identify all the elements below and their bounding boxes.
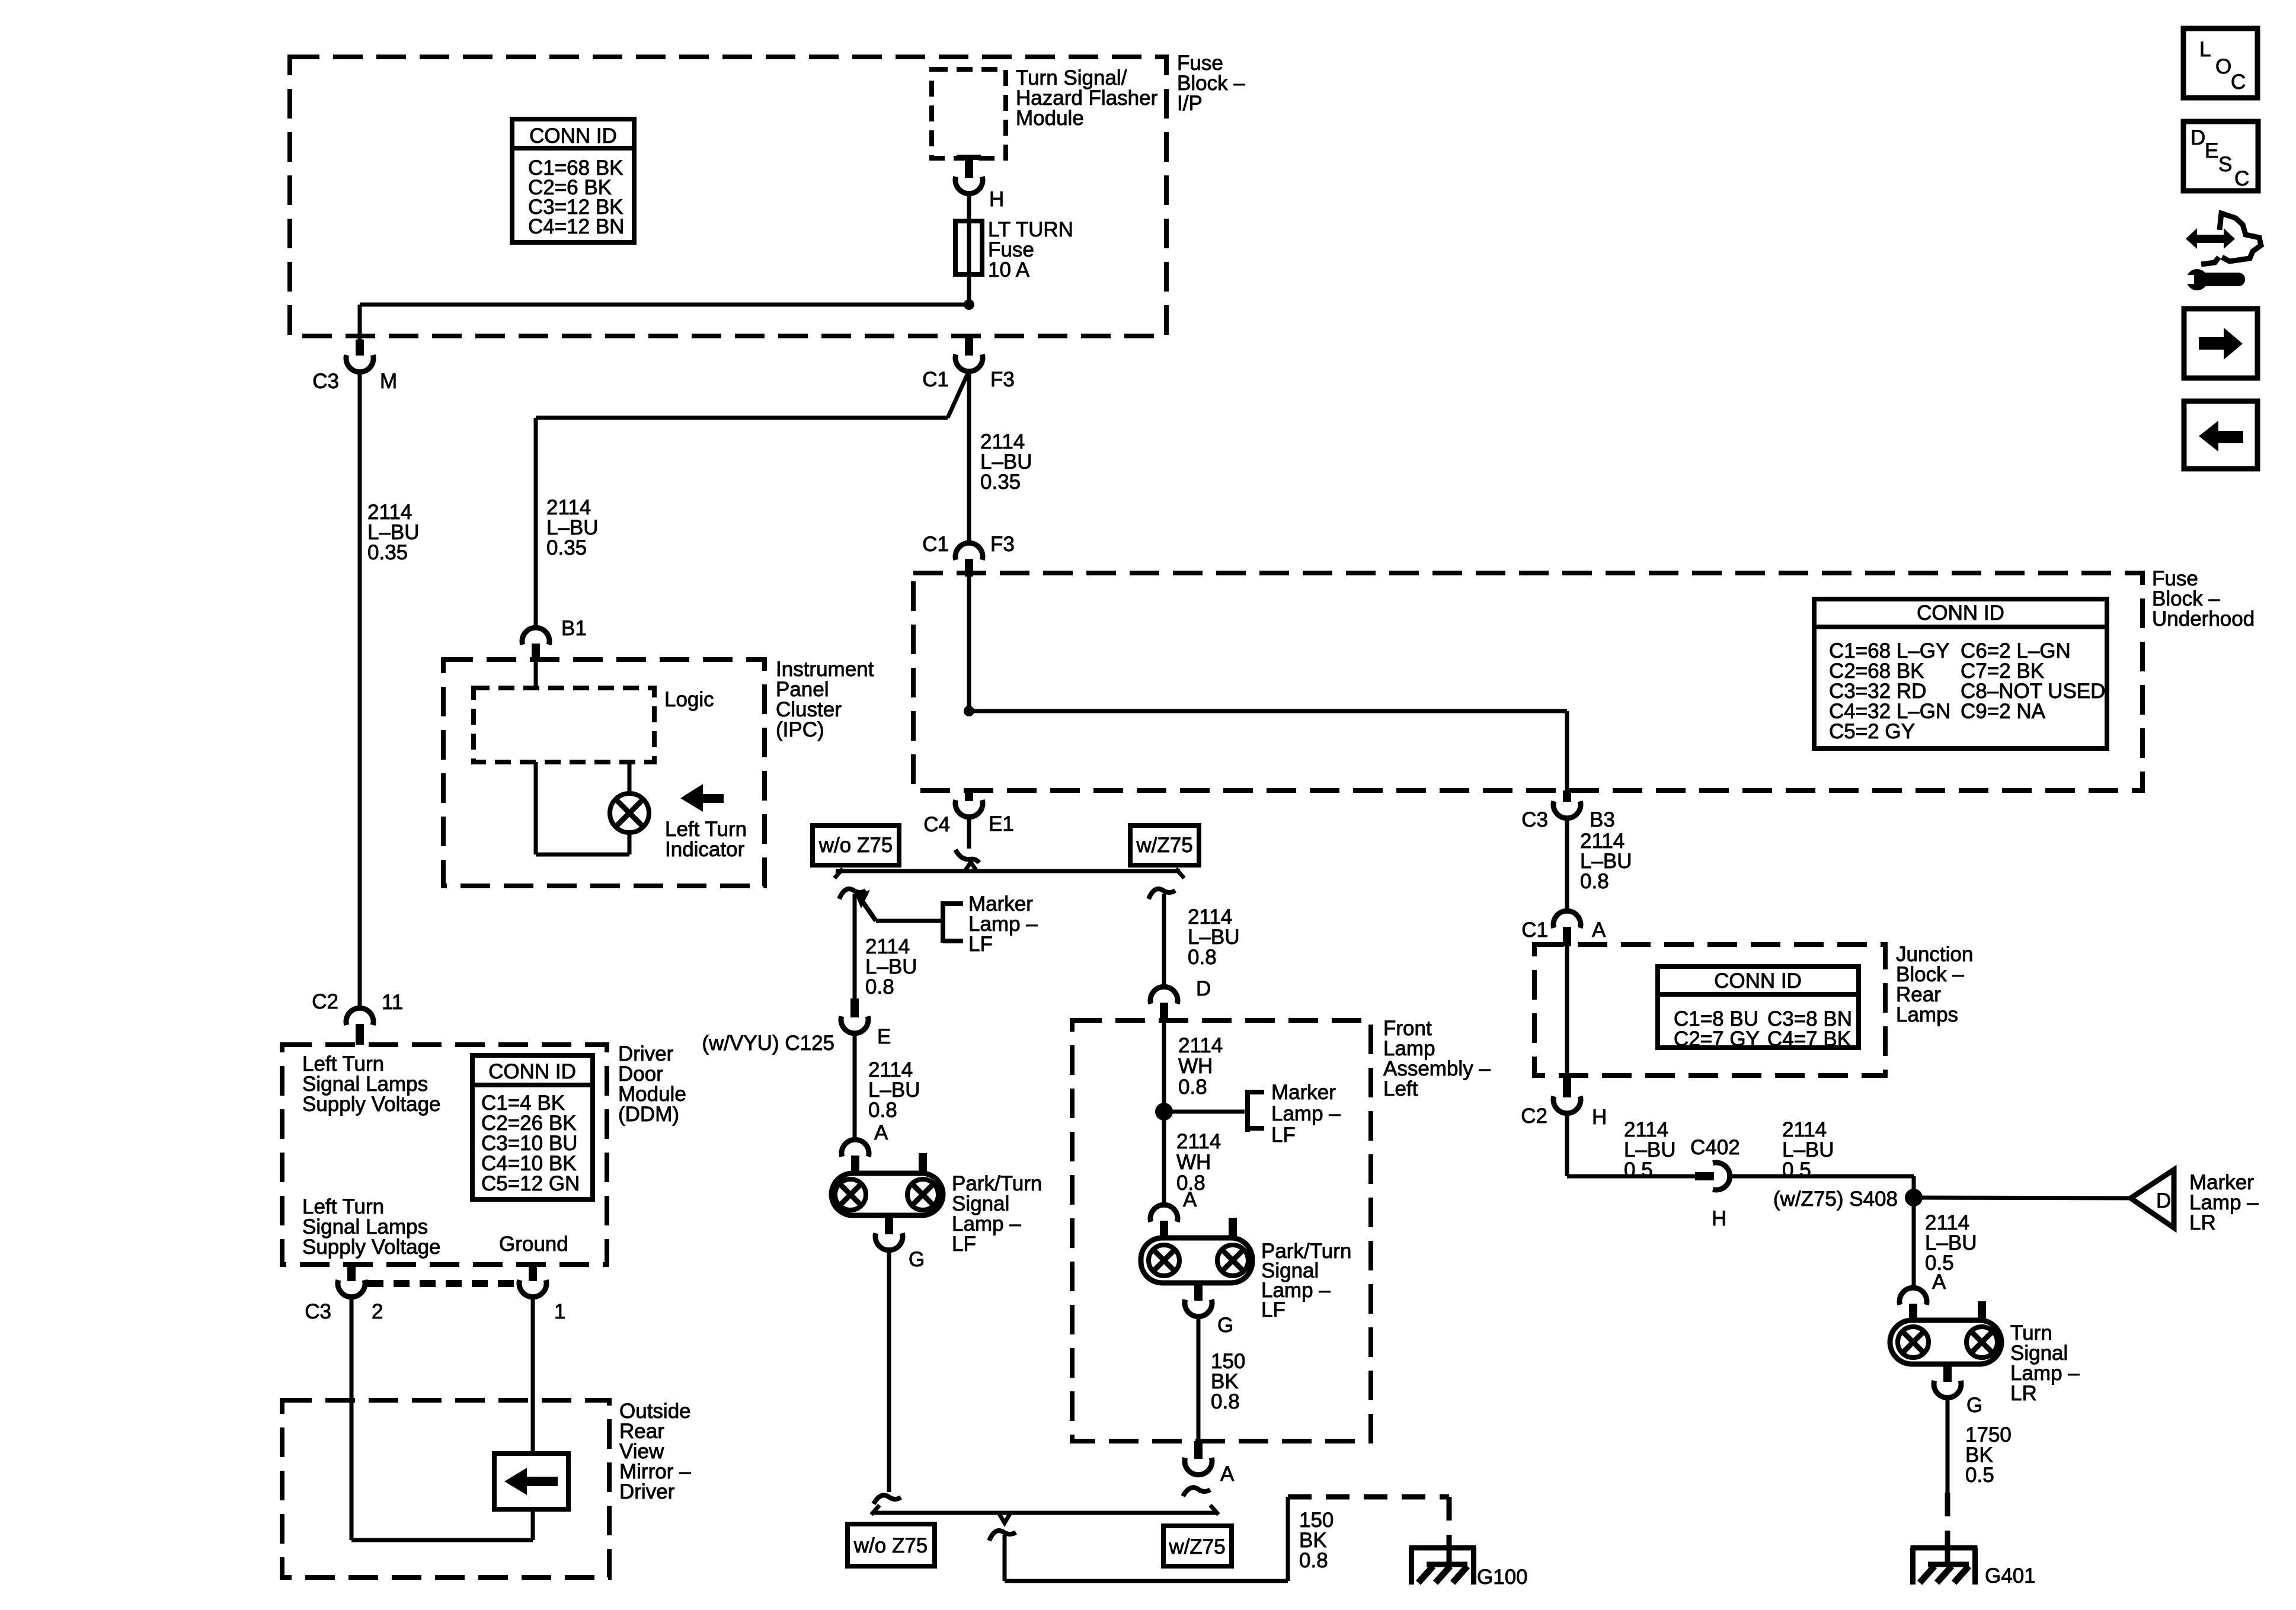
connector A (LF lamp 2) [1150, 1205, 1178, 1222]
connector A (LR lamp) [1900, 1288, 1927, 1305]
svg-text:CONN ID: CONN ID [1917, 601, 2004, 625]
svg-text:(w/Z75) S408: (w/Z75) S408 [1773, 1188, 1898, 1211]
svg-text:2114: 2114 [1176, 1130, 1221, 1153]
CONN ID table (I/P) [512, 119, 634, 242]
svg-text:Supply Voltage: Supply Voltage [302, 1093, 441, 1116]
connector G (LF lamp 1) [885, 1215, 893, 1234]
svg-text:E: E [2205, 139, 2218, 162]
svg-text:Driver: Driver [619, 1480, 675, 1503]
svg-text:F3: F3 [990, 368, 1015, 391]
Driver Door Module dashed box [282, 1045, 607, 1265]
svg-text:0.8: 0.8 [865, 975, 894, 998]
svg-text:G: G [1966, 1394, 1982, 1417]
svg-text:0.35: 0.35 [546, 536, 587, 559]
svg-text:WH: WH [1176, 1151, 1211, 1174]
svg-text:G: G [909, 1248, 925, 1271]
svg-text:Supply Voltage: Supply Voltage [302, 1235, 441, 1259]
Fuse Block Underhood dashed box [913, 573, 2142, 790]
svg-text:w/o Z75: w/o Z75 [818, 834, 893, 857]
Fuse Block I/P dashed box [290, 57, 1166, 336]
connector C3 pins 2 and 1 [347, 1265, 356, 1281]
svg-text:LF: LF [968, 933, 993, 956]
marker lamp LF tap [855, 890, 870, 908]
wire to marker lamp LR [1914, 1198, 2131, 1198]
wire logic to lamp [534, 762, 538, 854]
svg-text:Ground: Ground [499, 1233, 568, 1256]
wire to G100 [989, 1531, 1016, 1541]
turn signal lamp LR [1890, 1320, 2001, 1364]
wire to C3 M [360, 303, 969, 307]
option split symbol [955, 850, 979, 863]
ground G401 [1911, 1545, 1978, 1551]
module pin [957, 155, 981, 160]
svg-text:(w/VYU) C125: (w/VYU) C125 [702, 1032, 834, 1055]
svg-text:w/Z75: w/Z75 [1168, 1535, 1225, 1558]
marker lamp LF bracket [941, 901, 945, 943]
connector G (LF lamp 2) [1194, 1283, 1203, 1301]
CONN ID table (junction block) [1658, 966, 1859, 1048]
w/Z75 box (bottom) [1163, 1526, 1232, 1566]
w/Z75 box [1130, 825, 1199, 865]
node (junction) [964, 299, 974, 310]
fuse LT TURN 10A [955, 221, 982, 274]
svg-text:0.8: 0.8 [1580, 870, 1609, 893]
svg-text:H: H [1712, 1207, 1726, 1230]
Junction Block Rear Lamps dashed box [1534, 945, 1885, 1076]
svg-text:WH: WH [1178, 1055, 1213, 1078]
svg-text:C2: C2 [1521, 1105, 1547, 1128]
svg-text:D: D [1196, 977, 1211, 1000]
svg-text:Logic: Logic [664, 688, 714, 711]
svg-text:10 A: 10 A [988, 258, 1030, 281]
Instrument Panel Cluster dashed box [443, 660, 765, 886]
svg-text:CONN ID: CONN ID [488, 1060, 576, 1083]
svg-text:A: A [1183, 1188, 1197, 1211]
svg-text:Left: Left [1383, 1077, 1418, 1100]
wire left main [358, 370, 362, 1009]
connector B1 [522, 628, 549, 645]
icon DESC [2183, 121, 2258, 191]
indicator arrow [680, 784, 724, 812]
svg-text:G401: G401 [1985, 1564, 2036, 1587]
wires inside underhood block [967, 577, 971, 711]
svg-text:LR: LR [2189, 1211, 2216, 1234]
svg-text:0.8: 0.8 [1178, 1076, 1207, 1099]
svg-text:Marker: Marker [1271, 1081, 1336, 1104]
svg-text:C402: C402 [1690, 1136, 1740, 1159]
svg-text:F3: F3 [990, 533, 1015, 556]
svg-text:w/Z75: w/Z75 [1136, 834, 1192, 857]
w/o Z75 box (bottom) [848, 1524, 935, 1566]
svg-text:(IPC): (IPC) [776, 718, 824, 741]
park/turn signal lamp LF (2) [1141, 1238, 1252, 1283]
svg-text:D: D [2156, 1189, 2171, 1212]
svg-text:0.8: 0.8 [1299, 1549, 1328, 1572]
svg-text:Indicator: Indicator [665, 838, 745, 861]
icon right arrow [2184, 309, 2257, 378]
svg-text:E1: E1 [989, 812, 1014, 836]
branch wire to IPC B1 [948, 373, 968, 418]
connector A (front lamp box exit) [1194, 1441, 1203, 1459]
CONN ID table (DDM) [472, 1055, 593, 1199]
svg-text:11: 11 [382, 991, 403, 1014]
wire down to turn signal lamp LR [1912, 1198, 1916, 1288]
svg-text:S: S [2218, 153, 2232, 176]
svg-text:M: M [380, 370, 397, 393]
svg-text:A: A [874, 1121, 888, 1144]
connector H [955, 177, 983, 194]
svg-text:C2: C2 [312, 990, 338, 1013]
svg-text:C3: C3 [1521, 808, 1548, 831]
svg-text:B3: B3 [1590, 808, 1615, 831]
connector A (LF lamp 1) [842, 1140, 869, 1157]
svg-text:D: D [2191, 126, 2205, 149]
svg-text:C3: C3 [305, 1300, 331, 1323]
svg-text:Lamps: Lamps [1896, 1003, 1958, 1026]
svg-text:Underhood: Underhood [2152, 607, 2255, 630]
icon diagnostic arrow + wrench [2186, 228, 2235, 249]
svg-text:H: H [1592, 1106, 1607, 1129]
svg-text:C1: C1 [1521, 918, 1548, 942]
svg-text:0.8: 0.8 [1211, 1390, 1240, 1413]
svg-text:0.5: 0.5 [1965, 1464, 1994, 1487]
svg-text:2114: 2114 [1178, 1034, 1223, 1057]
svg-text:I/P: I/P [1177, 92, 1203, 115]
svg-text:C5=2 GY: C5=2 GY [1829, 720, 1915, 743]
Turn Signal / Hazard Flasher Module box [932, 69, 1006, 158]
dashed wire to G401 [1945, 1493, 1950, 1548]
mirror turn arrow box [494, 1454, 568, 1509]
icon LOC [2183, 28, 2257, 98]
connector C3 B3 [1563, 790, 1571, 801]
svg-text:A: A [1592, 918, 1606, 942]
svg-text:C4=12 BN: C4=12 BN [528, 215, 624, 238]
right option branch [1149, 889, 1175, 899]
svg-text:CONN ID: CONN ID [1714, 969, 1802, 993]
svg-text:0.8: 0.8 [868, 1099, 897, 1122]
svg-text:LF: LF [1271, 1124, 1296, 1147]
icon left arrow [2184, 401, 2257, 469]
svg-text:C1: C1 [922, 368, 949, 391]
svg-text:C9=2 NA: C9=2 NA [1961, 700, 2046, 723]
park/turn signal lamp LF (1) [832, 1173, 943, 1215]
svg-text:LF: LF [952, 1233, 976, 1256]
svg-text:E: E [877, 1025, 891, 1048]
svg-text:C5=12 GN: C5=12 GN [481, 1172, 580, 1195]
svg-text:H: H [989, 188, 1004, 211]
svg-text:(DDM): (DDM) [618, 1103, 679, 1126]
svg-text:C: C [2234, 167, 2249, 190]
logic box [534, 662, 538, 688]
svg-text:B1: B1 [561, 617, 587, 640]
left turn indicator lamp [610, 793, 649, 833]
bottom option brace [874, 1495, 901, 1504]
svg-text:G100: G100 [1477, 1566, 1528, 1589]
svg-text:Module: Module [1016, 107, 1084, 130]
svg-text:LF: LF [1261, 1298, 1285, 1321]
svg-text:C4: C4 [923, 813, 950, 836]
ground G100 [1409, 1545, 1476, 1551]
splice S408 [1912, 1176, 1916, 1198]
connector C1 F3 (fuse block output) [965, 337, 973, 356]
connector G (LR lamp) [1943, 1364, 1952, 1382]
connector C3 M [356, 340, 364, 356]
svg-text:C3: C3 [312, 370, 339, 393]
svg-text:Lamp –: Lamp – [1271, 1102, 1341, 1125]
svg-text:0.35: 0.35 [980, 470, 1021, 494]
svg-text:1: 1 [554, 1300, 565, 1323]
wires to mirror [350, 1296, 354, 1540]
w/o Z75 box [813, 825, 899, 865]
splice node [1155, 1103, 1173, 1121]
wire through junction block [1565, 946, 1569, 1076]
svg-text:C: C [2231, 71, 2246, 94]
marker lamp LR triangle [2131, 1170, 2174, 1228]
svg-text:C1: C1 [922, 533, 949, 556]
left option branch [839, 889, 866, 899]
svg-text:2: 2 [372, 1300, 383, 1323]
svg-text:L: L [2199, 38, 2211, 61]
svg-text:LR: LR [2010, 1382, 2037, 1405]
svg-text:C2=7 GY: C2=7 GY [1674, 1028, 1760, 1051]
wire [967, 274, 971, 305]
Outside Rear View Mirror dashed box [282, 1400, 609, 1577]
marker lamp LF bracket (2) [1245, 1090, 1250, 1132]
svg-text:w/o Z75: w/o Z75 [853, 1534, 928, 1557]
CONN ID table (underhood) [1814, 599, 2107, 748]
option brace [836, 869, 1180, 873]
svg-text:G: G [1217, 1314, 1233, 1337]
wire [967, 192, 971, 223]
svg-text:0.5: 0.5 [1782, 1158, 1811, 1182]
connector C2 H [1563, 1076, 1571, 1097]
wire [967, 370, 971, 544]
connector C4 E1 [965, 790, 973, 801]
svg-text:O: O [2215, 55, 2231, 78]
dashed jumper between connector halves [367, 1280, 517, 1287]
svg-text:C4=7 BK: C4=7 BK [1767, 1028, 1851, 1051]
svg-text:A: A [1220, 1462, 1235, 1486]
svg-text:0.8: 0.8 [1188, 946, 1217, 969]
svg-text:A: A [1932, 1270, 1946, 1294]
Front Lamp Assembly dashed box [1072, 1020, 1371, 1441]
svg-text:0.5: 0.5 [1624, 1158, 1653, 1182]
svg-text:CONN ID: CONN ID [529, 124, 617, 148]
svg-text:0.35: 0.35 [367, 541, 408, 564]
